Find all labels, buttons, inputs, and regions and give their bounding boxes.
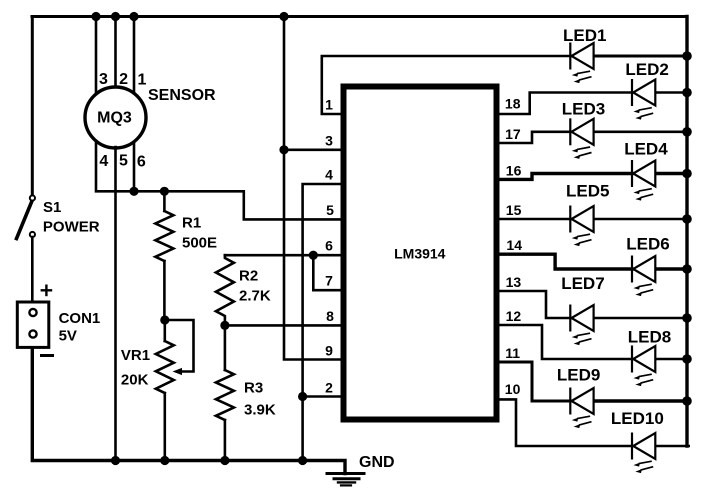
node junction right rail LED2 [682, 88, 692, 98]
svg-text:LED5: LED5 [566, 182, 609, 201]
svg-text:1: 1 [138, 72, 147, 89]
svg-text:5: 5 [119, 153, 128, 170]
node junction right rail LED1 [682, 51, 692, 61]
wire top rail down to IC pin3 and pin9 tie [284, 17, 341, 150]
wire LED8 anode to right rail [655, 358, 687, 361]
switch S1 bottom contact [30, 232, 35, 237]
node junction ground vertical at ground rail [298, 456, 307, 465]
node junction R3 bottom ground rail [220, 456, 229, 465]
wire LED2 anode to right rail [655, 91, 687, 94]
svg-text:LED8: LED8 [628, 328, 671, 347]
wire LED1 anode to right rail [594, 55, 687, 58]
node junction top rail sensor pin3 [91, 12, 100, 21]
wire VR1 wiper link [165, 320, 194, 372]
node junction pin2 wire [298, 392, 307, 401]
svg-text:MQ3: MQ3 [97, 110, 132, 127]
node junction top rail sensor pin1 [129, 12, 138, 21]
wire switch to CON1 [31, 237, 34, 302]
op-amp U1 LM3914 IC body [344, 87, 497, 420]
node junction sensor pin5 at ground rail [111, 456, 120, 465]
resistor R3 3.9K [224, 325, 227, 370]
wire sensor pin1 to top rail [133, 17, 136, 93]
potentiometer VR1 20K [164, 320, 167, 341]
svg-text:11: 11 [505, 345, 520, 361]
node junction IC pin6 branch [309, 251, 318, 260]
wire IC pin10 to LED10 [496, 399, 632, 446]
node junction right rail LED6 [682, 264, 692, 274]
svg-text:3: 3 [325, 132, 333, 148]
wire IC pin12 to LED8 [496, 325, 632, 359]
node junction right rail LED9 [682, 396, 692, 406]
svg-text:2: 2 [325, 380, 333, 396]
switch S1 lever [17, 199, 34, 239]
node junction right rail LED8 [682, 354, 692, 364]
node junction IC pin3 [279, 145, 288, 154]
wire IC pin15 to LED5 [496, 218, 570, 221]
svg-text:S1: S1 [43, 199, 61, 216]
svg-text:4: 4 [325, 167, 333, 183]
wire R2 top to IC pin6 [225, 254, 341, 257]
wire IC pin1 up and right to LED1 [322, 56, 571, 114]
resistor R1 500E [163, 191, 166, 211]
LED1 [570, 43, 593, 84]
node junction sensor pin6 wire [129, 187, 138, 196]
wire LED4 anode to right rail [655, 172, 688, 175]
connector CON1 body [17, 302, 49, 347]
LED3 [570, 118, 593, 159]
wire IC pin2 stub [303, 395, 341, 398]
LED9 [570, 388, 593, 429]
svg-text:LED1: LED1 [563, 26, 606, 45]
wire IC pin17 to LED3 [496, 132, 570, 143]
svg-text:13: 13 [506, 274, 522, 290]
svg-text:7: 7 [325, 273, 333, 289]
wire pin3 tie down to IC pin9 [284, 150, 341, 360]
ground [327, 474, 364, 486]
wire sensor pin5 down to ground rail [114, 147, 117, 461]
switch S1 top contact [30, 195, 35, 200]
LED8 [632, 346, 655, 387]
svg-text:18: 18 [505, 96, 521, 112]
wire LED6 anode to right rail [655, 267, 687, 270]
wire IC pin11 to LED9 [496, 362, 570, 401]
svg-text:R2: R2 [239, 268, 258, 285]
svg-text:9: 9 [325, 343, 333, 359]
LED7 [570, 305, 593, 346]
wire bottom ground rail [32, 347, 345, 474]
svg-text:17: 17 [505, 126, 521, 142]
svg-text:LED4: LED4 [624, 140, 668, 159]
svg-text:3.9K: 3.9K [244, 402, 276, 419]
svg-text:POWER: POWER [43, 219, 100, 236]
node CON1 plus mark [42, 286, 51, 295]
LED5 [570, 206, 593, 247]
connector CON1 pin hole top [29, 309, 36, 316]
wire IC pin14 to LED6 [496, 254, 632, 269]
svg-text:CON1: CON1 [59, 310, 101, 327]
svg-text:R3: R3 [244, 380, 263, 397]
wire top supply rail [32, 15, 687, 18]
resistor R2 2.7K [216, 255, 234, 325]
node junction top rail sensor pin2 [111, 12, 120, 21]
svg-text:2.7K: 2.7K [239, 288, 271, 305]
node junction right rail LED7 [682, 313, 692, 323]
svg-text:15: 15 [506, 202, 522, 218]
wire sensor pin2 to top rail [114, 17, 117, 89]
wire IC pin6 to pin7 tie [313, 255, 341, 290]
svg-text:1: 1 [325, 97, 333, 113]
svg-text:8: 8 [326, 308, 334, 324]
LED10 [632, 433, 655, 474]
wire left rail upper [31, 17, 34, 197]
node junction right rail LED5 [682, 214, 692, 224]
svg-text:5V: 5V [59, 328, 77, 345]
svg-text:LED9: LED9 [557, 366, 600, 385]
svg-text:12: 12 [506, 308, 522, 324]
wire LED7 anode to right rail [594, 317, 687, 320]
node junction VR1 bottom ground rail [160, 456, 169, 465]
wire LED10 anode to right rail [655, 445, 688, 448]
connector CON1 pin hole bottom [29, 330, 36, 337]
LED6 [632, 256, 655, 297]
svg-text:14: 14 [506, 237, 522, 253]
svg-text:GND: GND [359, 454, 395, 471]
node VR1 wiper arrowhead [173, 368, 183, 375]
svg-text:LM3914: LM3914 [394, 246, 446, 262]
svg-text:16: 16 [506, 163, 522, 179]
svg-text:6: 6 [137, 154, 146, 171]
wire LED5 anode to right rail [594, 218, 687, 221]
svg-text:LED6: LED6 [626, 235, 669, 254]
node junction R1 top [160, 187, 169, 196]
svg-text:6: 6 [325, 238, 333, 254]
node junction top rail to IC pin3 [279, 12, 288, 21]
wire sensor pin3 to top rail [95, 17, 98, 95]
svg-text:SENSOR: SENSOR [148, 87, 216, 104]
node CON1 minus mark [42, 354, 53, 357]
svg-text:2: 2 [119, 71, 128, 88]
wire sensor pin4 down and right to R1 node [96, 141, 341, 219]
wire IC pin18 to LED2 [496, 93, 632, 115]
svg-text:5: 5 [326, 202, 334, 218]
svg-text:LED7: LED7 [561, 274, 604, 293]
node junction right rail LED4 [682, 169, 692, 179]
svg-text:LED10: LED10 [611, 409, 664, 428]
svg-text:R1: R1 [182, 215, 201, 232]
LED2 [632, 79, 655, 120]
wire R2-R3 node to IC pin8 [225, 324, 341, 327]
wire IC pin4 down to pin2 and ground [303, 184, 341, 461]
svg-text:20K: 20K [121, 372, 149, 389]
svg-text:4: 4 [99, 153, 108, 170]
wire right supply rail [685, 17, 688, 447]
wire IC pin16 to LED4 [496, 174, 632, 180]
svg-text:LED2: LED2 [625, 60, 668, 79]
sensor MQ3 body [85, 87, 146, 148]
svg-text:VR1: VR1 [121, 347, 150, 364]
node junction R1 bottom VR1 top [160, 315, 169, 324]
wire LED9 anode to right rail [594, 399, 687, 402]
svg-text:3: 3 [99, 71, 108, 88]
LED4 [632, 160, 655, 201]
svg-text:500E: 500E [182, 235, 217, 252]
wire LED3 anode to right rail [594, 131, 687, 134]
node junction right rail LED3 [682, 127, 692, 137]
node junction R2 bottom R3 top [220, 321, 229, 330]
svg-text:10: 10 [505, 381, 521, 397]
wire IC pin13 to LED7 [496, 291, 570, 318]
wire sensor pin6 down [133, 143, 136, 191]
svg-text:LED3: LED3 [562, 100, 605, 119]
